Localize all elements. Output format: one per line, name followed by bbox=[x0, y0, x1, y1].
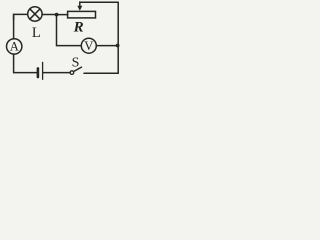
svg-text:L: L bbox=[32, 25, 41, 41]
rheostat slider arrow bbox=[77, 2, 82, 11]
svg-text:R: R bbox=[73, 20, 84, 36]
wire voltmeter left run bbox=[57, 15, 82, 46]
wire voltmeter to right edge bbox=[96, 45, 118, 47]
rheostat R body bbox=[68, 11, 96, 18]
wire slider to top-right corner bbox=[80, 1, 118, 3]
battery negative short thick plate bbox=[37, 68, 40, 77]
switch S pivot bbox=[70, 71, 74, 75]
wire top-left corner to lamp bbox=[14, 14, 28, 20]
wire left edge upper (corner to ammeter) bbox=[13, 14, 15, 39]
node junction dot (lamp/rheostat/voltmeter) bbox=[55, 13, 59, 17]
voltmeter V bbox=[81, 38, 96, 53]
lamp L bbox=[28, 7, 42, 21]
wire lamp to junction node bbox=[42, 14, 57, 16]
wire switch to bottom-right corner bbox=[84, 72, 118, 74]
wire right edge bbox=[117, 2, 119, 73]
wire left edge lower (ammeter to bottom corner) bbox=[14, 54, 37, 73]
node dot voltmeter tap on right edge bbox=[116, 44, 120, 48]
ammeter A bbox=[7, 39, 22, 54]
svg-text:A: A bbox=[10, 39, 19, 53]
svg-text:S: S bbox=[72, 56, 80, 71]
switch lever (open) bbox=[74, 67, 82, 71]
wire junction to rheostat left terminal bbox=[57, 14, 68, 16]
wire battery to switch pivot bbox=[43, 72, 70, 74]
battery positive long thin plate bbox=[42, 62, 44, 79]
svg-text:V: V bbox=[84, 39, 93, 53]
